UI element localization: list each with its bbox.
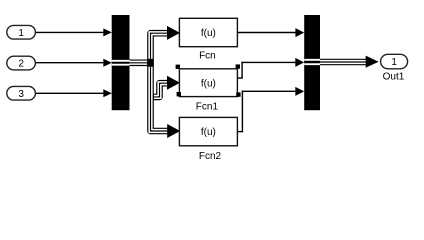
- selection handle Fcn1 top-right: [236, 64, 240, 68]
- node: bus junction: [147, 59, 153, 67]
- svg-text:Fcn1: Fcn1: [196, 102, 219, 113]
- svg-text:Out1: Out1: [383, 72, 405, 83]
- fcn block Fcn1 (selected): [179, 69, 237, 97]
- input port 3: [7, 86, 36, 100]
- wire: Fcn1 output riser to Mux1 middle input: [237, 58, 304, 79]
- wire: bus middle branch to Fcn1 (staircase): [151, 76, 181, 98]
- selection handle Fcn1 top-left: [176, 65, 180, 69]
- svg-text:1: 1: [391, 57, 397, 68]
- selection handle Fcn1 bottom-left: [177, 92, 181, 96]
- mux block Mux1 (right): [304, 15, 320, 110]
- wire: Fcn2 output riser to Mux1 bottom input: [237, 87, 304, 132]
- fcn block Fcn2: [179, 117, 237, 145]
- svg-text:Fcn: Fcn: [199, 51, 216, 62]
- wire: port 3 to Mux: [35, 89, 112, 97]
- input port 2: [7, 56, 36, 70]
- svg-text:2: 2: [18, 59, 24, 70]
- fcn block Fcn: [179, 18, 237, 46]
- input port 1: [7, 25, 36, 39]
- wire: Fcn output to Mux1 top input: [237, 28, 304, 37]
- svg-text:Fcn2: Fcn2: [199, 151, 222, 162]
- svg-text:f(u): f(u): [201, 28, 216, 39]
- wire: port 2 to Mux: [35, 59, 112, 67]
- wire: port 1 to Mux: [35, 28, 112, 36]
- svg-text:f(u): f(u): [201, 127, 216, 138]
- wire: Mux output bus (crosses mux bar): [112, 61, 148, 65]
- svg-text:1: 1: [18, 28, 24, 39]
- wire: Mux1 output bus to Out1 (crosses mux bar): [304, 56, 378, 68]
- selection handle Fcn1 bottom-right: [236, 92, 240, 96]
- mux block Mux: [112, 15, 130, 110]
- svg-text:3: 3: [18, 89, 24, 100]
- output port Out1: [381, 54, 408, 69]
- svg-text:f(u): f(u): [201, 78, 216, 89]
- wire: bus trunk with top branch to Fcn and bottom branch to Fcn2: [149, 26, 180, 138]
